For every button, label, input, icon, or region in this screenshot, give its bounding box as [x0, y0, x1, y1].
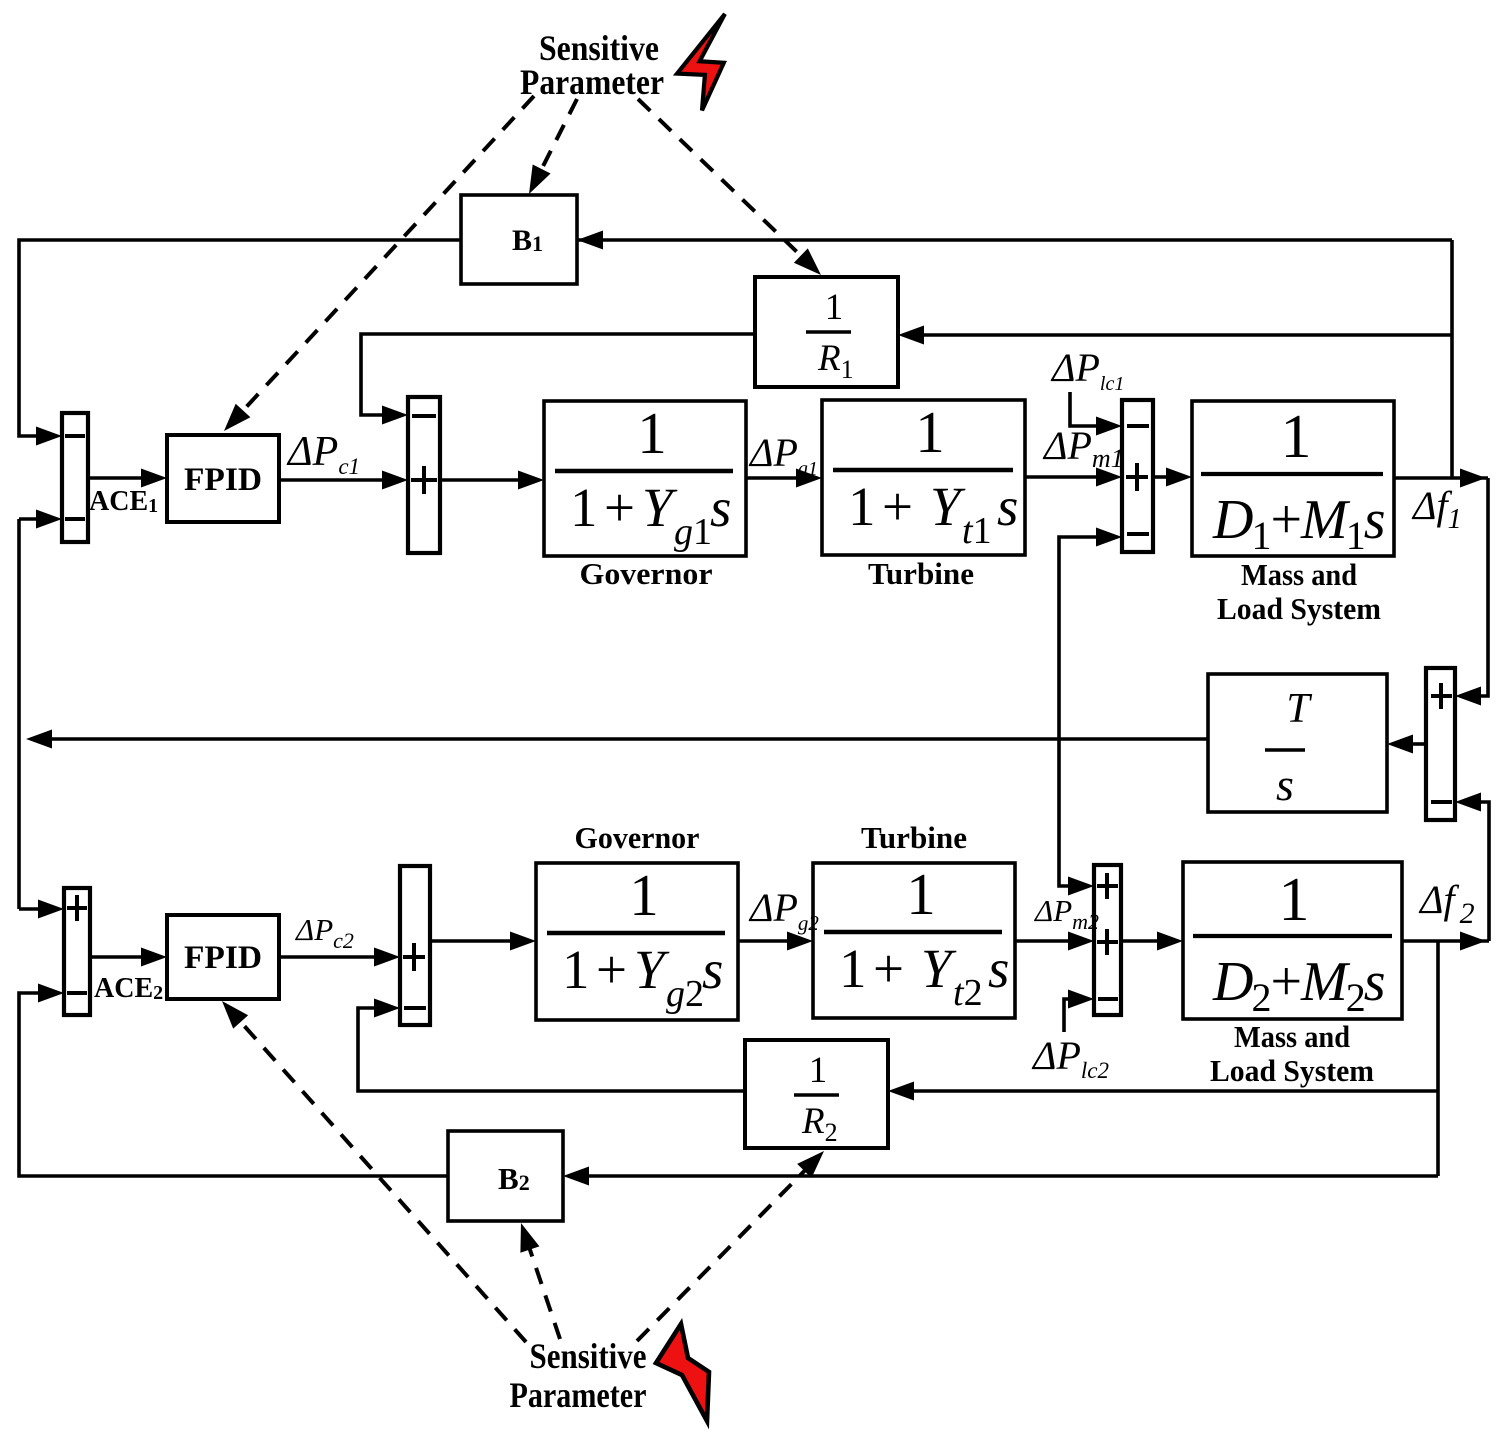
summing junction governor 2	[400, 866, 430, 1025]
svg-text:Governor: Governor	[580, 556, 713, 591]
controller FPID (area 1)	[167, 435, 279, 522]
wire: tie-line power tap down to area 2 load sum	[1059, 739, 1094, 896]
controller FPID (area 2)	[167, 915, 279, 999]
wire: df2 to B2 input	[563, 1167, 1438, 1186]
wire: load sum 2 to mass and load system 2	[1121, 932, 1183, 951]
block governor 2: 1/(1+Yg2 s)	[536, 862, 738, 1020]
block turbine 1: 1/(1+Yt1 s)	[822, 399, 1025, 555]
svg-text:s: s	[1276, 759, 1294, 810]
summing junction load 2	[1094, 865, 1121, 1015]
block T/s	[1208, 674, 1387, 812]
svg-text:1: 1	[915, 399, 945, 465]
wire: FPID2 to governor summing junction 2	[279, 948, 400, 967]
wire: df1 feedback riser (junction to B1 and 1/R1 lines)	[1450, 240, 1454, 478]
dashed arrow: sensitive parameter to B1	[529, 99, 577, 194]
wire: tie line power to ACE1 sum (lower input)	[19, 510, 62, 529]
wire: governor sum 2 to governor 2	[430, 932, 536, 951]
svg-text:Parameter: Parameter	[510, 1375, 647, 1415]
svg-text:Load System: Load System	[1217, 591, 1381, 626]
wire: ACE1 to FPID1	[88, 469, 167, 488]
wire: FPID1 to governor summing junction	[279, 471, 408, 490]
block B2	[448, 1131, 563, 1221]
wire: df2 to 1/R2 input	[888, 1082, 1438, 1101]
wire: frequency bias feedback into B1 (from right)	[577, 231, 1452, 250]
wire: B2 output to ACE2 sum (minus input)	[19, 984, 448, 1177]
block mass and load system 2: 1/(D2+M2 s)	[1183, 862, 1402, 1020]
wire: governor 2 to turbine 2	[738, 932, 813, 951]
wire: governor sum 1 to governor 1	[440, 471, 544, 490]
wire: turbine 1 to load summing junction 1	[1025, 468, 1122, 487]
svg-text:Turbine: Turbine	[868, 556, 974, 591]
wire: df1 to 1/R1 input	[898, 326, 1452, 345]
lightning bolt (top)	[677, 14, 725, 111]
svg-text:1: 1	[809, 1050, 828, 1091]
svg-text:1: 1	[1281, 403, 1312, 471]
wire: load sum 1 to mass and load system 1	[1153, 468, 1192, 487]
svg-text:T: T	[1286, 686, 1312, 732]
svg-text:Sensitive: Sensitive	[530, 1336, 647, 1376]
svg-text:1: 1	[906, 861, 936, 927]
label Mass and Load System (area 1)	[1217, 557, 1381, 626]
svg-text:1: 1	[637, 400, 667, 466]
label Mass and Load System (area 2)	[1210, 1019, 1374, 1088]
block 1/R1	[755, 277, 898, 387]
wire: B1 output to ACE1 summing junction	[19, 240, 461, 446]
svg-text:1: 1	[629, 862, 659, 928]
wire: left bus vertical (tie line power distribution)	[17, 519, 21, 909]
svg-text:Load System: Load System	[1210, 1053, 1374, 1088]
summing junction governor 1	[408, 397, 440, 553]
block governor 1: 1/(1+Yg1 s)	[544, 400, 746, 556]
wire: 1/R2 output to governor sum 2 (minus input)	[358, 999, 745, 1092]
svg-text:ACE1: ACE1	[89, 486, 158, 517]
wire: ACE2 to FPID2	[90, 948, 167, 967]
summing junction ACE2	[64, 888, 90, 1015]
svg-text:1: 1	[1279, 866, 1310, 934]
wire: df2 feedback riser down (to 1/R2 and B2 lines)	[1436, 941, 1440, 1176]
label Sensitive Parameter (top)	[520, 28, 664, 102]
wire: tie sum output to T/s block	[1387, 735, 1426, 754]
summing junction ACE1	[62, 413, 88, 542]
block B1	[461, 195, 577, 284]
wire: 1/R1 output to governor summing junction (minus input)	[361, 334, 755, 425]
wire: dP_lc2 into load sum 2 (minus input)	[1064, 990, 1094, 1033]
wire: governor 1 to turbine 1	[746, 469, 822, 488]
wire: tie line power to ACE2 sum (upper input)	[19, 900, 64, 919]
wire: T/s output (tie line power, long line to left bus)	[26, 730, 1208, 749]
dashed arrow: sensitive parameter to B2	[520, 1223, 560, 1339]
svg-text:Parameter: Parameter	[520, 62, 664, 102]
wire: turbine 2 to load summing junction 2	[1015, 932, 1094, 951]
dashed arrow: sensitive parameter to 1/R2	[637, 1151, 824, 1341]
block 1/R2	[745, 1040, 888, 1148]
dashed arrow: sensitive parameter to 1/R1	[638, 99, 821, 275]
svg-text:1: 1	[825, 287, 844, 328]
svg-text:Mass and: Mass and	[1234, 1019, 1350, 1054]
wire: df1 output of mass 1 (to right corner, down to tie sum plus)	[1394, 469, 1488, 706]
label Sensitive Parameter (bottom)	[510, 1336, 647, 1415]
svg-text:FPID: FPID	[184, 940, 262, 976]
wire: tie-line power to load sum 1 (lower minus input)	[1059, 528, 1122, 740]
summing junction tie-line (df1 - df2)	[1426, 668, 1455, 820]
wire: dP_lc1 into load sum 1 (minus input)	[1070, 392, 1122, 436]
block mass and load system 1: 1/(D1+M1 s)	[1192, 401, 1394, 558]
svg-text:FPID: FPID	[184, 462, 262, 498]
svg-text:Mass and: Mass and	[1241, 557, 1357, 592]
svg-text:ACE2: ACE2	[94, 973, 163, 1004]
dashed arrow: sensitive parameter to FPID1	[224, 96, 534, 431]
wire: df2 output of mass 2 (right, then up to tie sum minus)	[1402, 793, 1489, 951]
block turbine 2: 1/(1+Yt2 s)	[813, 861, 1015, 1018]
svg-text:Governor: Governor	[575, 820, 700, 855]
svg-text:Turbine: Turbine	[861, 820, 967, 855]
dashed arrow: sensitive parameter to FPID2	[222, 1001, 526, 1342]
summing junction load 1	[1122, 400, 1153, 552]
lightning bolt (bottom)	[656, 1324, 709, 1421]
